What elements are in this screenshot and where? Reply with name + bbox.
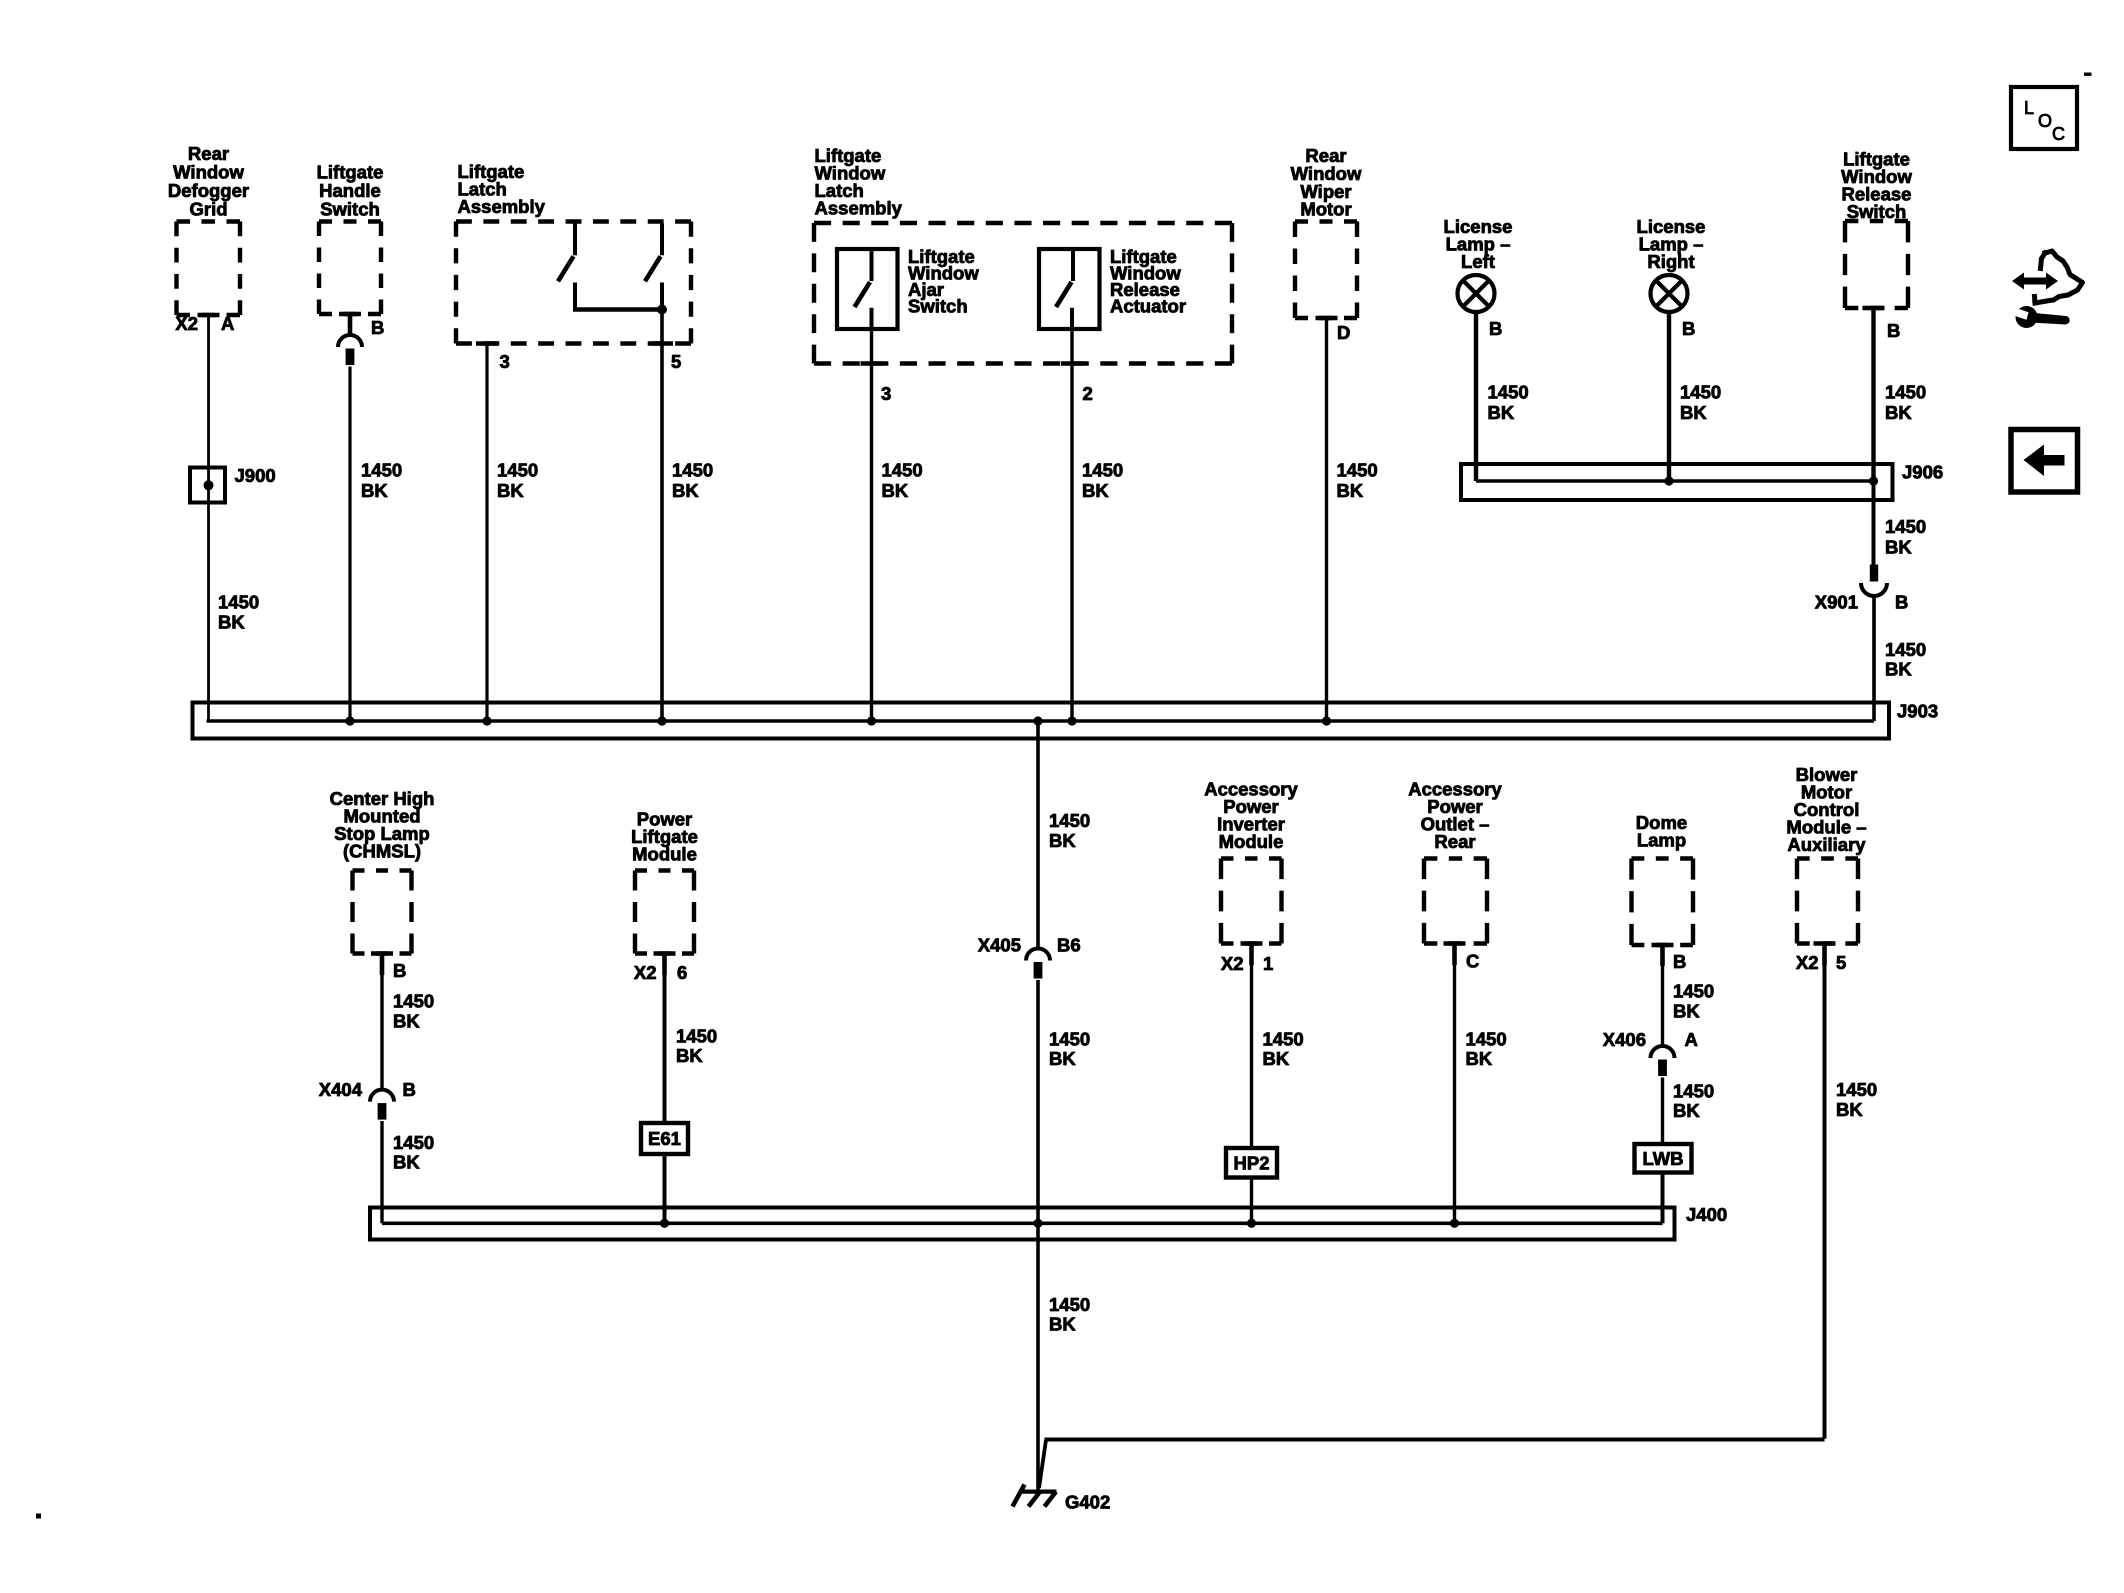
- pin label X2|6 (PLM): [634, 962, 687, 983]
- label J906: [1902, 462, 1943, 483]
- label E61: [648, 1128, 681, 1149]
- wire label 1450 BK (CHMSL upper): [393, 991, 434, 1032]
- svg-text:X2: X2: [175, 313, 198, 334]
- label Accessory Power Inverter Module: [1204, 779, 1298, 853]
- junction dot J903 at x=487: [482, 716, 491, 725]
- svg-text:1450: 1450: [1082, 460, 1123, 481]
- pin stub at PLM bottom: [654, 954, 676, 976]
- label Dome Lamp: [1636, 812, 1687, 851]
- lamp symbol License Lamp - Left: [1458, 275, 1495, 312]
- junction dot J906 at license lamp right: [1664, 476, 1673, 485]
- label Blower Motor Control Module - Auxiliary: [1786, 764, 1866, 855]
- svg-text:1450: 1450: [1049, 810, 1090, 831]
- svg-text:BK: BK: [1885, 536, 1912, 557]
- junction dot J903 at x=871.5: [867, 716, 876, 725]
- icon back arrow box: [2011, 430, 2078, 493]
- svg-text:Assembly: Assembly: [815, 198, 903, 219]
- label Accessory Power Outlet - Rear: [1408, 779, 1502, 853]
- svg-text:BK: BK: [1049, 1314, 1076, 1335]
- svg-text:HP2: HP2: [1234, 1153, 1270, 1174]
- label X404 and pin B: [319, 1079, 416, 1100]
- svg-text:LWB: LWB: [1642, 1148, 1683, 1169]
- svg-text:1450: 1450: [393, 1132, 434, 1153]
- svg-text:X2: X2: [1796, 952, 1819, 973]
- wire 1450 BK CHMSL to X404: [380, 954, 383, 1090]
- junction dot J400 at x=1251.5: [1247, 1219, 1256, 1228]
- inline connector below handle switch pin B: [338, 335, 362, 365]
- svg-text:1450: 1450: [672, 460, 713, 481]
- svg-text:Module: Module: [1219, 831, 1284, 852]
- wire label 1450 BK (dome upper): [1673, 981, 1714, 1022]
- pin stub at blower module bottom: [1814, 944, 1836, 966]
- component CHMSL (dashed box): [353, 871, 412, 954]
- svg-text:1450: 1450: [1885, 639, 1926, 660]
- svg-text:B: B: [393, 960, 406, 981]
- wire label 1450 BK (outlet): [1466, 1028, 1507, 1069]
- svg-text:BK: BK: [1488, 402, 1515, 423]
- junction dot J903 at x=350: [345, 716, 354, 725]
- pin D label (wiper motor): [1337, 322, 1350, 343]
- svg-text:B6: B6: [1057, 935, 1081, 956]
- stray mark (scan dot bottom left): [36, 1514, 41, 1519]
- splice pack J906 (outer box): [1461, 464, 1893, 500]
- internal wire joining latch switches: [573, 307, 662, 312]
- switch contact 1 in latch assembly: [558, 223, 575, 281]
- svg-text:C: C: [1466, 951, 1479, 972]
- svg-text:BK: BK: [218, 611, 245, 632]
- svg-text:BK: BK: [676, 1045, 703, 1066]
- svg-text:1450: 1450: [497, 460, 538, 481]
- svg-text:BK: BK: [1673, 1000, 1700, 1021]
- wire 1450 BK license lamp right to J906: [1667, 312, 1671, 481]
- label Rear Window Defogger Grid: [168, 143, 249, 220]
- svg-text:1450: 1450: [218, 592, 259, 613]
- svg-text:BK: BK: [882, 480, 909, 501]
- wire 1450 BK release switch to J906: [1871, 308, 1875, 481]
- label Power Liftgate Module: [631, 809, 698, 865]
- pin label X2|1 (inverter module): [1221, 953, 1273, 974]
- svg-text:3: 3: [500, 351, 510, 372]
- svg-text:1450: 1450: [1049, 1294, 1090, 1315]
- splice pack J903 (outer box): [193, 703, 1890, 739]
- svg-text:BK: BK: [1885, 659, 1912, 680]
- label Center High Mounted Stop Lamp (CHMSL): [330, 788, 435, 862]
- component Liftgate Window Release Switch (dashed box): [1845, 221, 1908, 308]
- pin stub at window latch pin 2: [1061, 361, 1083, 366]
- diagonal joint to ground lead: [1039, 1440, 1046, 1488]
- wire label 1450 BK (ground feed): [1049, 1294, 1090, 1335]
- label LWB: [1642, 1148, 1683, 1169]
- wire 1450 BK from defogger pin A to J900: [207, 315, 210, 721]
- svg-text:BK: BK: [1337, 480, 1364, 501]
- wire latch pin 5 vertical (internal): [660, 283, 664, 310]
- svg-text:Left: Left: [1461, 251, 1495, 272]
- sub-box Liftgate Window Ajar Switch: [837, 249, 898, 329]
- icon LOC box: [2011, 87, 2077, 149]
- svg-text:BK: BK: [1466, 1048, 1493, 1069]
- svg-text:B: B: [1887, 320, 1900, 341]
- svg-text:BK: BK: [393, 1010, 420, 1031]
- pin stub at handle switch bottom: [339, 314, 361, 335]
- svg-text:J903: J903: [1897, 701, 1938, 722]
- svg-text:2: 2: [1083, 383, 1093, 404]
- svg-text:BK: BK: [1263, 1048, 1290, 1069]
- svg-text:5: 5: [1836, 952, 1846, 973]
- pin stub at dome lamp bottom: [1652, 945, 1674, 966]
- wire 1450 BK blower module to ground junction: [1823, 944, 1827, 1439]
- svg-text:1450: 1450: [1488, 382, 1529, 403]
- pin stub at window latch pin 3: [861, 361, 883, 366]
- svg-text:J400: J400: [1686, 1204, 1727, 1225]
- svg-text:1450: 1450: [676, 1025, 717, 1046]
- label Liftgate Window Release Switch: [1841, 149, 1912, 223]
- svg-text:B: B: [1673, 951, 1686, 972]
- svg-text:D: D: [1337, 322, 1350, 343]
- svg-text:BK: BK: [1082, 480, 1109, 501]
- svg-text:BK: BK: [1885, 402, 1912, 423]
- svg-text:1450: 1450: [1337, 460, 1378, 481]
- svg-text:Module: Module: [632, 844, 697, 865]
- label Liftgate Handle Switch: [317, 162, 384, 220]
- svg-text:B: B: [1682, 318, 1695, 339]
- splice pack J400 inner bus line: [382, 1222, 1663, 1226]
- wire label 1450 BK (handle switch): [361, 460, 402, 501]
- wire label 1450 BK (blower module): [1836, 1079, 1877, 1120]
- label License Lamp - Right: [1637, 216, 1706, 272]
- ground feed wire X405 to J400: [1036, 980, 1040, 1223]
- label Liftgate Window Ajar Switch: [908, 246, 979, 317]
- pin stub at outlet bottom: [1444, 944, 1466, 966]
- svg-text:X406: X406: [1603, 1029, 1646, 1050]
- svg-text:A: A: [1685, 1029, 1698, 1050]
- pin B label (license lamp right): [1682, 318, 1695, 339]
- pin stub at latch assembly pin 3: [476, 341, 498, 346]
- pin stub at inverter module bottom: [1241, 944, 1263, 966]
- svg-text:Lamp: Lamp: [1637, 830, 1686, 851]
- wire LWB to J400: [1661, 1173, 1665, 1224]
- stray mark (scan dash top right): [2084, 73, 2092, 76]
- junction dot J903 at x=1326.5: [1322, 716, 1331, 725]
- wire label 1450 BK (license lamp right): [1680, 382, 1721, 423]
- junction dot in J900: [204, 480, 214, 490]
- svg-text:(CHMSL): (CHMSL): [343, 841, 421, 862]
- ground feed wire J400 to G402: [1036, 1223, 1040, 1491]
- label J400: [1686, 1204, 1727, 1225]
- ground symbol G402: [1013, 1485, 1057, 1507]
- svg-text:Motor: Motor: [1300, 199, 1351, 220]
- wire label 1450 BK (below J906): [1885, 516, 1926, 557]
- wire 1450 BK X404 to J400: [380, 1121, 383, 1223]
- junction dot at latch switch 2: [657, 305, 667, 315]
- svg-text:X901: X901: [1815, 592, 1858, 613]
- wire 1450 BK X901 to J903: [1872, 596, 1876, 721]
- component Power Liftgate Module (dashed box): [635, 871, 694, 954]
- splice pack J906 inner bus line: [1476, 479, 1874, 483]
- junction dot J906 at release switch wire: [1869, 476, 1878, 485]
- switch contact (ajar switch): [855, 249, 872, 307]
- component code E61 (box): [641, 1123, 688, 1154]
- wire 1450 BK PLM to E61: [663, 954, 667, 1124]
- svg-text:X404: X404: [319, 1079, 363, 1100]
- pin 5 label (latch assembly): [671, 351, 681, 372]
- pin stub at defogger bottom: [198, 313, 220, 318]
- svg-text:Actuator: Actuator: [1110, 296, 1186, 317]
- splice pack J903 inner bus line: [207, 719, 1875, 723]
- pin stub at release switch bottom: [1863, 306, 1885, 311]
- component Dome Lamp (dashed box): [1632, 859, 1694, 946]
- wire label 1450 BK (latch pin 3): [497, 460, 538, 501]
- sub-box Liftgate Window Release Actuator: [1039, 249, 1100, 329]
- wire 1450 BK inverter module to HP2: [1250, 944, 1253, 1149]
- svg-text:E61: E61: [648, 1128, 681, 1149]
- svg-text:1450: 1450: [1673, 981, 1714, 1002]
- component Liftgate Handle Switch (dashed box): [319, 222, 381, 315]
- label License Lamp - Left: [1444, 216, 1513, 272]
- component Rear Window Wiper Motor (dashed box): [1295, 222, 1357, 319]
- junction dot J400 at x=1038: [1033, 1219, 1042, 1228]
- pin 3 label (latch assembly): [500, 351, 510, 372]
- inline connector X406: [1651, 1046, 1675, 1076]
- label X901 and pin B: [1815, 592, 1909, 613]
- pin 2 label (release actuator): [1083, 383, 1093, 404]
- wire 1450 BK release actuator pin 2 to J903: [1070, 329, 1073, 721]
- wire 1450 BK J906 to X901: [1872, 481, 1876, 565]
- svg-text:BK: BK: [672, 480, 699, 501]
- svg-text:1450: 1450: [1836, 1079, 1877, 1100]
- pin stub at wiper motor bottom: [1316, 316, 1338, 321]
- svg-text:Right: Right: [1647, 251, 1694, 272]
- svg-text:B: B: [1489, 318, 1502, 339]
- svg-text:X405: X405: [978, 935, 1021, 956]
- svg-text:1450: 1450: [1885, 516, 1926, 537]
- svg-text:Auxiliary: Auxiliary: [1787, 834, 1866, 855]
- splice J900 (box): [190, 468, 225, 503]
- wire 1450 BK dome lamp to X406: [1661, 945, 1664, 1046]
- svg-text:5: 5: [671, 351, 681, 372]
- wire label 1450 BK (PLM): [676, 1025, 717, 1066]
- component code LWB (box): [1635, 1144, 1692, 1173]
- wire label 1450 BK (ajar pin 3): [882, 460, 923, 501]
- wire label 1450 BK (release switch): [1885, 382, 1926, 423]
- svg-text:Rear: Rear: [1434, 831, 1475, 852]
- svg-text:1450: 1450: [361, 460, 402, 481]
- junction dot J400 at x=664.5: [660, 1219, 669, 1228]
- svg-text:1450: 1450: [1049, 1028, 1090, 1049]
- lamp symbol License Lamp - Right: [1651, 275, 1688, 312]
- svg-text:Assembly: Assembly: [458, 196, 546, 217]
- junction dot J903 at x=662: [657, 716, 666, 725]
- svg-text:1450: 1450: [882, 460, 923, 481]
- component Blower Motor Control Module - Auxiliary (dashed box): [1797, 859, 1858, 944]
- wire 1450 BK outlet to J400: [1453, 944, 1456, 1224]
- svg-text:Switch: Switch: [320, 199, 380, 220]
- wire label 1450 BK (release actuator pin 2): [1082, 460, 1123, 501]
- ajar switch lower contact: [870, 308, 874, 329]
- wire label 1450 BK (latch pin 5): [672, 460, 713, 501]
- svg-text:6: 6: [677, 962, 687, 983]
- svg-text:BK: BK: [393, 1152, 420, 1173]
- svg-text:BK: BK: [1049, 830, 1076, 851]
- label Liftgate Window Release Actuator: [1110, 246, 1186, 317]
- label X406 and pin A: [1603, 1029, 1698, 1050]
- component Liftgate Latch Assembly (dashed box): [456, 222, 691, 344]
- component Liftgate Window Latch Assembly (dashed box): [814, 223, 1232, 364]
- switch contact 2 in latch assembly: [645, 223, 662, 281]
- pin B label (dome lamp): [1673, 951, 1686, 972]
- svg-text:B: B: [1895, 592, 1908, 613]
- pin B label (release switch): [1887, 320, 1900, 341]
- component Rear Window Defogger Grid (dashed box): [177, 222, 241, 316]
- svg-text:Grid: Grid: [189, 199, 227, 220]
- wire 1450 BK ajar switch pin 3 to J903: [870, 329, 873, 721]
- junction dot J903 at x=1072: [1067, 716, 1076, 725]
- wire label 1450 BK (below J903 center): [1049, 810, 1090, 851]
- svg-text:B: B: [403, 1079, 416, 1100]
- switch 1 lower contact wire: [573, 283, 577, 310]
- pin B label (license lamp left): [1489, 318, 1502, 339]
- wire 1450 BK handle switch to J903: [348, 367, 351, 722]
- switch contact (release actuator): [1056, 249, 1073, 307]
- svg-text:1450: 1450: [1680, 382, 1721, 403]
- label J903: [1897, 701, 1938, 722]
- svg-text:BK: BK: [361, 480, 388, 501]
- svg-text:Switch: Switch: [908, 296, 968, 317]
- svg-text:X2: X2: [1221, 953, 1244, 974]
- label HP2: [1234, 1153, 1270, 1174]
- pin 3 label (ajar switch): [881, 383, 891, 404]
- release actuator lower contact: [1070, 308, 1074, 329]
- wire E61 to J400: [663, 1154, 667, 1223]
- pin A label X2|A: [175, 313, 234, 334]
- svg-text:X2: X2: [634, 962, 657, 983]
- svg-text:BK: BK: [1049, 1048, 1076, 1069]
- component Accessory Power Outlet - Rear (dashed box): [1424, 859, 1487, 944]
- inline connector X405: [1026, 949, 1050, 979]
- svg-text:1450: 1450: [1673, 1080, 1714, 1101]
- splice pack J400 (outer box): [370, 1208, 1675, 1240]
- svg-text:BK: BK: [497, 480, 524, 501]
- svg-text:J906: J906: [1902, 462, 1943, 483]
- label Liftgate Latch Assembly: [458, 161, 546, 217]
- svg-text:O: O: [2038, 111, 2052, 131]
- label Rear Window Wiper Motor: [1291, 145, 1362, 220]
- pin B label (CHMSL): [393, 960, 406, 981]
- wire label 1450 BK (CHMSL lower): [393, 1132, 434, 1173]
- wire 1450 BK latch pin 3 to J903: [485, 344, 488, 722]
- inline connector X404: [370, 1090, 394, 1120]
- svg-text:BK: BK: [1836, 1099, 1863, 1120]
- wire label 1450 BK (wiper motor): [1337, 460, 1378, 501]
- svg-text:1450: 1450: [1885, 382, 1926, 403]
- wire HP2 to J400: [1250, 1178, 1253, 1224]
- wire 1450 BK license lamp left to J906: [1474, 312, 1478, 481]
- svg-text:C: C: [2052, 124, 2065, 144]
- component code HP2 (box): [1226, 1148, 1277, 1178]
- ground feed wire J903 to X405: [1036, 721, 1040, 949]
- pin stub at CHMSL bottom: [371, 954, 393, 976]
- wire 1450 BK latch pin 5 to J903: [660, 310, 664, 722]
- wire label 1450 BK (license lamp left): [1488, 382, 1529, 423]
- svg-text:BK: BK: [1680, 402, 1707, 423]
- wire label 1450 BK (inverter module): [1263, 1028, 1304, 1069]
- label G402: [1065, 1492, 1110, 1513]
- svg-text:J900: J900: [235, 465, 276, 486]
- svg-text:BK: BK: [1673, 1100, 1700, 1121]
- svg-text:G402: G402: [1065, 1492, 1110, 1513]
- svg-text:1450: 1450: [1466, 1028, 1507, 1049]
- label X405 and pin B6: [978, 935, 1081, 956]
- wire 1450 BK X406 to LWB: [1661, 1078, 1664, 1145]
- svg-text:1450: 1450: [393, 991, 434, 1012]
- svg-text:1450: 1450: [1263, 1028, 1304, 1049]
- wire label 1450 BK (above J903 right): [1885, 639, 1926, 680]
- pin label X2|5 (blower module): [1796, 952, 1846, 973]
- icon double arrow with part outline and wrench: [2010, 251, 2083, 328]
- svg-text:1: 1: [1263, 953, 1273, 974]
- pin C label (outlet): [1466, 951, 1479, 972]
- junction dot J903 at x=1038: [1033, 716, 1042, 725]
- wire label 1450 BK (dome lower): [1673, 1080, 1714, 1121]
- svg-text:B: B: [371, 317, 384, 338]
- junction dot J400 at x=1454.5: [1450, 1219, 1459, 1228]
- pin B label (handle switch): [371, 317, 384, 338]
- svg-text:L: L: [2024, 98, 2034, 118]
- label Liftgate Window Latch Assembly: [815, 145, 903, 219]
- inline connector X901: [1861, 565, 1887, 597]
- wire label 1450 BK (above J400 center): [1049, 1028, 1090, 1069]
- wire 1450 BK wiper motor to J903: [1325, 318, 1328, 721]
- component Accessory Power Inverter Module (dashed box): [1221, 859, 1282, 944]
- pin stub at latch assembly pin 5: [651, 341, 673, 346]
- wire label 1450 BK (defogger): [218, 592, 259, 633]
- label J900: [235, 465, 276, 486]
- svg-text:A: A: [221, 313, 234, 334]
- bottom wire blower to ground junction: [1045, 1438, 1825, 1442]
- svg-text:3: 3: [881, 383, 891, 404]
